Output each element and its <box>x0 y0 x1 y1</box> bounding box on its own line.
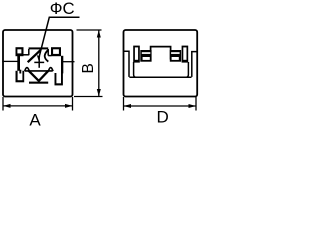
svg-text:A: A <box>29 111 41 130</box>
svg-text:D: D <box>157 108 169 127</box>
svg-text:B: B <box>80 63 97 73</box>
svg-text:ФС: ФС <box>50 0 75 18</box>
